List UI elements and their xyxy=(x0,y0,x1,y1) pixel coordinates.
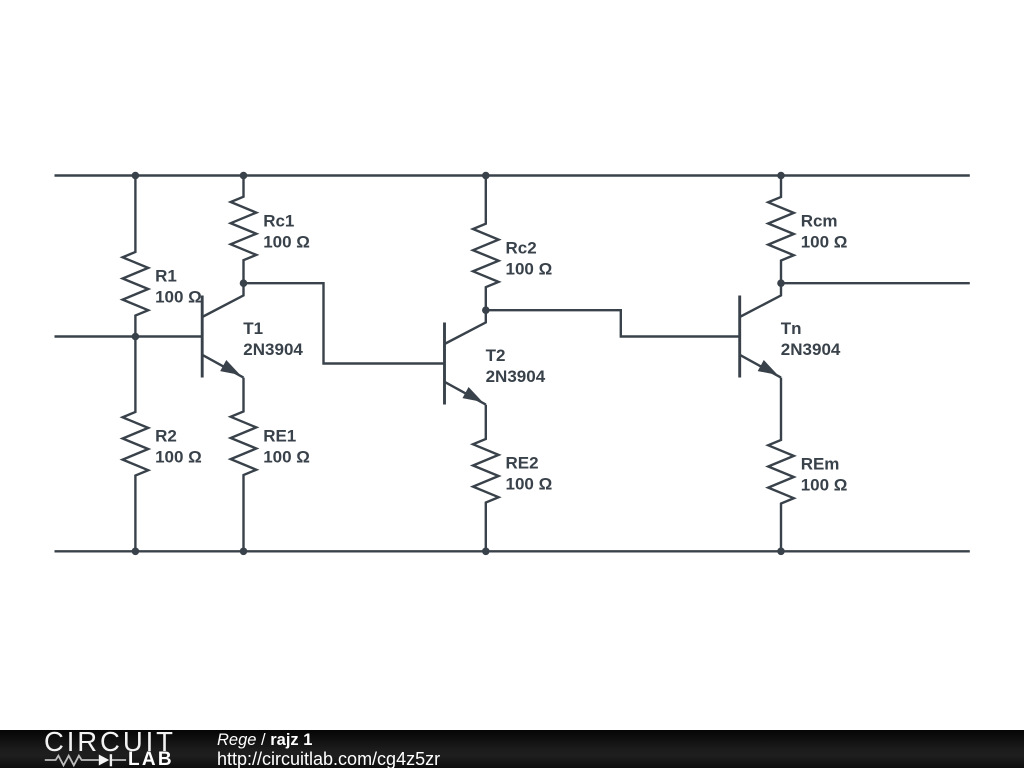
svg-text:2N3904: 2N3904 xyxy=(486,367,546,386)
junction node rail-R1 xyxy=(132,172,140,180)
transistor T2 xyxy=(445,310,486,407)
junction node ground-RE1 xyxy=(240,548,248,556)
svg-text:100 Ω: 100 Ω xyxy=(801,233,848,252)
junction node ground-REm xyxy=(777,548,785,556)
svg-text:RE1: RE1 xyxy=(263,426,296,445)
transistor Tn xyxy=(740,283,781,380)
resistor R1 xyxy=(123,176,149,337)
svg-text:Tn: Tn xyxy=(781,319,802,338)
svg-text:100 Ω: 100 Ω xyxy=(155,288,202,307)
svg-text:100 Ω: 100 Ω xyxy=(506,259,553,278)
CircuitLab logo symbol resistor-diode xyxy=(44,752,129,768)
resistor Rc1 xyxy=(231,176,257,284)
junction node T1 collector xyxy=(240,279,248,287)
wire bottom ground rail xyxy=(55,550,970,552)
wire right output line xyxy=(781,282,970,284)
footer title Rege / rajz 1 xyxy=(217,731,312,750)
wire left input line xyxy=(55,335,203,337)
junction node ground-R2 xyxy=(132,548,140,556)
resistor REm xyxy=(768,378,794,552)
resistor RE2 xyxy=(473,405,499,552)
svg-text:Rc1: Rc1 xyxy=(263,211,294,230)
junction node input-R1R2 xyxy=(132,333,140,341)
CircuitLab logo wordmark LAB xyxy=(128,749,174,771)
wire T2 collector to Tn base xyxy=(486,310,740,336)
transistor T1 xyxy=(202,283,243,380)
svg-text:100 Ω: 100 Ω xyxy=(155,448,202,467)
svg-text:2N3904: 2N3904 xyxy=(781,340,841,359)
junction node T2 collector xyxy=(482,306,490,314)
svg-text:100 Ω: 100 Ω xyxy=(263,232,310,251)
svg-text:REm: REm xyxy=(801,455,840,474)
svg-text:R1: R1 xyxy=(155,267,177,286)
footer url xyxy=(217,749,440,770)
svg-text:100 Ω: 100 Ω xyxy=(263,447,310,466)
junction node rail-Rc1 xyxy=(240,172,248,180)
svg-text:2N3904: 2N3904 xyxy=(243,340,303,359)
svg-text:Rc2: Rc2 xyxy=(506,238,537,257)
resistor RE1 xyxy=(231,378,257,552)
wire T1 collector to T2 base xyxy=(244,283,445,363)
svg-text:R2: R2 xyxy=(155,427,177,446)
svg-text:100 Ω: 100 Ω xyxy=(801,476,848,495)
CircuitLab logo wordmark CIRCUIT xyxy=(44,726,176,758)
junction node ground-RE2 xyxy=(482,548,490,556)
junction node rail-Rcm xyxy=(777,172,785,180)
svg-text:T2: T2 xyxy=(486,346,506,365)
junction node Tn collector xyxy=(777,279,785,287)
svg-text:T1: T1 xyxy=(243,319,263,338)
resistor Rcm xyxy=(768,176,794,284)
wire top supply rail xyxy=(55,174,970,176)
svg-text:100 Ω: 100 Ω xyxy=(506,475,553,494)
resistor R2 xyxy=(123,337,149,552)
junction node rail-Rc2 xyxy=(482,172,490,180)
resistor Rc2 xyxy=(473,176,499,311)
svg-text:RE2: RE2 xyxy=(506,454,539,473)
svg-text:Rcm: Rcm xyxy=(801,212,838,231)
footer bar xyxy=(0,730,1024,768)
